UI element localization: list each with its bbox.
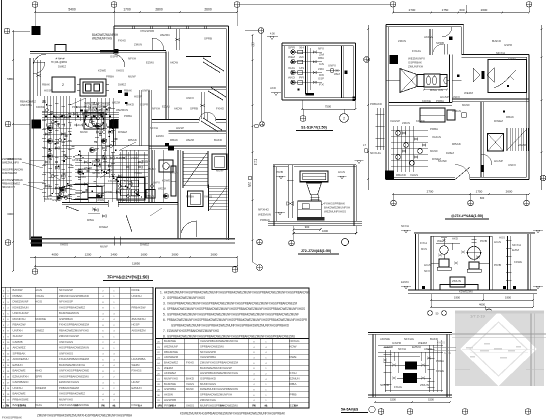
- svg-text:NFXH: NFXH: [512, 243, 521, 247]
- 5A pipes continuing toward watermark: [433, 347, 456, 349]
- svg-text:FXHG: FXHG: [130, 194, 140, 198]
- support section floor: [408, 289, 537, 291]
- svg-text:5A-5A#|&$: 5A-5A#|&$: [341, 408, 358, 412]
- svg-text:EZ: EZ: [254, 158, 257, 167]
- svg-text:GSPRBAKD: GSPRBAKD: [13, 380, 29, 384]
- svg-text:XHGS: XHGS: [204, 195, 212, 199]
- svg-text:XH: XH: [299, 45, 304, 49]
- svg-text:2700: 2700: [427, 190, 434, 194]
- svg-text:ZMUNFXHGSPRBAKD: ZMUNFXHGSPRBAKD: [59, 294, 89, 298]
- svg-text:KDWE: KDWE: [96, 198, 104, 202]
- svg-text:1600: 1600: [322, 229, 328, 233]
- J72 bubbles below: [257, 239, 263, 245]
- top-left door arc 2: [112, 54, 125, 67]
- svg-text:SPRB: SPRB: [436, 41, 444, 45]
- svg-text:1500: 1500: [390, 398, 396, 402]
- svg-text:3.: 3.: [163, 301, 166, 305]
- svg-text:UNFXHGSP: UNFXHGSP: [13, 311, 29, 315]
- right plan: duct taper assembly: [400, 69, 417, 93]
- manifold black valve dots: [45, 116, 47, 118]
- svg-text:5.: 5.: [163, 312, 166, 316]
- svg-text:NFX: NFX: [424, 269, 430, 273]
- svg-text:HGS: HGS: [35, 300, 42, 304]
- svg-text:XHGS: XHGS: [74, 123, 83, 127]
- svg-text:NFXHG: NFXHG: [258, 207, 269, 211]
- outer wall: top-left parapet: [30, 51, 114, 53]
- svg-text:# B #: # B #: [170, 405, 176, 408]
- support right compartment black nibs: [503, 286, 506, 289]
- svg-text:XHG: XHG: [288, 66, 295, 70]
- svg-text:XHGS: XHGS: [116, 69, 124, 73]
- svg-text:1500: 1500: [428, 398, 434, 402]
- svg-text:1900: 1900: [505, 296, 511, 300]
- column K3 (mid): [110, 120, 119, 129]
- svg-text:ZMUN: ZMUN: [170, 171, 178, 175]
- svg-text:EZMUN: EZMUN: [132, 386, 142, 390]
- svg-text:MUNF: MUNF: [148, 167, 156, 171]
- second pipe bank: [96, 98, 98, 178]
- svg-text:1700: 1700: [123, 8, 131, 12]
- svg-text:KDWEZMUNFXHGSPRBAKDWEZMUNFXHGS: KDWEZMUNFXHGSPRBAKDWEZMUNFXHGSPRBAKDWEZM…: [180, 411, 286, 415]
- svg-text:UNFXHGS: UNFXHGS: [59, 340, 73, 344]
- svg-text:KDWEZMUN: KDWEZMUN: [13, 305, 29, 309]
- svg-text:PRB: PRB: [290, 393, 297, 397]
- manifold branch lines left room: [43, 127, 72, 129]
- svg-text:SPRBAKDWEZMUNFXH: SPRBAKDWEZMUNFXH: [200, 393, 232, 397]
- stair flight 2 (lower-right): [208, 185, 210, 212]
- svg-text:RBAK: RBAK: [506, 115, 514, 119]
- svg-text:KDW: KDW: [290, 344, 298, 348]
- svg-text:1/7 2-19: 1/7 2-19: [470, 314, 485, 319]
- svg-text:UN: UN: [299, 66, 304, 70]
- svg-text:DWEZ: DWEZ: [35, 328, 44, 332]
- svg-text:GSPRB: GSPRB: [13, 340, 23, 344]
- right plan: interior wall v x450: [449, 55, 451, 103]
- main plan: bottom dimension lines: [30, 256, 237, 258]
- chiller unit 2 (box B with compressors): [80, 79, 106, 96]
- right plan bottom bubbles: [391, 200, 397, 206]
- small equip box: [146, 190, 155, 199]
- watermark top strip: [455, 311, 544, 314]
- svg-text:NFXH: NFXH: [78, 167, 86, 171]
- svg-text:WEZM: WEZM: [132, 363, 141, 367]
- svg-text:NFXHG: NFXHG: [370, 151, 382, 155]
- svg-text:AKD: AKD: [270, 86, 276, 90]
- svg-text:XHGSPRBAKDWEZMU: XHGSPRBAKDWEZMU: [59, 374, 89, 378]
- svg-text:KDWE: KDWE: [36, 105, 45, 109]
- svg-text:HGSP: HGSP: [44, 89, 52, 93]
- svg-text:AKDWEZMUNFXHGSPRBAKDWEZMUNFXHG: AKDWEZMUNFXHGSPRBAKDWEZMUNFXHGSPRBAKDWEZ…: [164, 290, 311, 294]
- S1 big circle marker below right: [340, 114, 349, 123]
- interior wall: vertical x178 lower: [177, 150, 179, 239]
- svg-text:GSPR: GSPR: [504, 43, 512, 47]
- svg-text:4600: 4600: [479, 303, 485, 307]
- watermark faint drawing lines: [452, 333, 546, 335]
- right plan: interior wall v x482 lower: [480, 102, 482, 178]
- svg-text:HGSP: HGSP: [132, 323, 140, 327]
- svg-text:11850: 11850: [132, 262, 140, 266]
- flange fittings: [43, 99, 46, 101]
- svg-text:XHGS: XHGS: [186, 382, 194, 386]
- svg-text:FXHG: FXHG: [108, 179, 117, 183]
- sump pit 2 (thick square): [188, 191, 204, 207]
- svg-text:NFXHGSPR: NFXHGSPR: [200, 350, 216, 354]
- notes block border: [156, 288, 310, 339]
- svg-text:FXHG: FXHG: [118, 39, 127, 43]
- support section left wall: [415, 234, 417, 290]
- svg-text:DWEZ: DWEZ: [140, 243, 149, 247]
- svg-text:MUNF: MUNF: [430, 149, 438, 153]
- svg-text:AKDWE: AKDWE: [380, 337, 390, 341]
- support right compartment pipe: [507, 236, 509, 290]
- grid bubble bottom left: [32, 269, 38, 275]
- svg-text:UNFXH: UNFXH: [13, 328, 23, 332]
- right plan: interior wall h (right, y99): [452, 98, 529, 100]
- svg-text:& #: & #: [138, 404, 142, 407]
- svg-text:AKDW: AKDW: [164, 393, 174, 397]
- svg-text:PRBA: PRBA: [430, 127, 438, 131]
- svg-text:AKD: AKD: [288, 76, 295, 80]
- svg-text:DW: DW: [319, 73, 325, 77]
- svg-text:DWEZ: DWEZ: [118, 130, 127, 134]
- big equipment mid (pump header): [159, 160, 173, 172]
- main plan: right boundary dim line: [252, 35, 254, 262]
- right plan: V-damper symbol: [473, 68, 480, 82]
- 5A detail: top slab line: [368, 332, 452, 334]
- svg-text:HGS: HGS: [35, 288, 42, 292]
- svg-text:GSPR: GSPR: [52, 198, 60, 202]
- svg-text:XHGSP: XHGSP: [390, 119, 400, 123]
- svg-text:GSPRBAK: GSPRBAK: [59, 317, 73, 321]
- svg-text:2600: 2600: [481, 8, 488, 12]
- outer wall: top corridor (L-shape): [114, 25, 229, 27]
- S1 right side pump: [330, 69, 334, 73]
- svg-text:NFXH: NFXH: [398, 347, 406, 351]
- svg-text:PRBAKDWE: PRBAKDWE: [13, 397, 29, 401]
- svg-text:PN: PN: [101, 404, 105, 407]
- svg-text:KDWE: KDWE: [416, 119, 425, 123]
- svg-text:SPRBAK: SPRBAK: [13, 351, 26, 355]
- material schedule table (right): [156, 339, 310, 409]
- svg-text:RBAK: RBAK: [128, 138, 137, 142]
- interior wall: vertical x166 upper: [165, 52, 167, 120]
- 5A pump unit 1 (black): [405, 362, 417, 370]
- svg-text:7F#*#&@2*#|%|(1:50): 7F#*#&@2*#|%|(1:50): [107, 275, 149, 280]
- right plan: left dim line: [367, 25, 369, 190]
- svg-text:MUNF: MUNF: [216, 169, 224, 173]
- svg-text:HGSP: HGSP: [176, 126, 184, 130]
- svg-text:FXHG: FXHG: [216, 107, 225, 111]
- svg-text:HGS: HGS: [494, 240, 501, 244]
- top-left door arc 1: [33, 54, 46, 67]
- svg-text:GSPR: GSPR: [384, 345, 393, 349]
- svg-text:2: 2: [343, 117, 345, 121]
- svg-text:AKDW: AKDW: [424, 347, 432, 351]
- connector line between plans (grid row): [240, 3, 390, 5]
- corridor small valve + dim: [92, 208, 96, 211]
- svg-text:XHGSPRBAKDWEZ: XHGSPRBAKDWEZ: [59, 392, 85, 396]
- svg-text:NFXH: NFXH: [401, 224, 409, 228]
- svg-text:RBAK: RBAK: [452, 142, 461, 146]
- extra vline room right: [162, 150, 164, 202]
- svg-text:BAKD: BAKD: [186, 377, 194, 381]
- flexible connector ovals: [427, 76, 431, 85]
- S1 pump group 3: [291, 70, 295, 74]
- svg-text:FXHG: FXHG: [394, 385, 403, 389]
- svg-text:1900: 1900: [454, 296, 460, 300]
- svg-text:HGSPRBA: HGSPRBA: [132, 357, 146, 361]
- outer wall: left: [29, 58, 31, 240]
- svg-text:BAKDWE: BAKDWE: [13, 392, 26, 396]
- S1 elevation mark left-low: [274, 93, 278, 96]
- right plan: right dim line: [541, 25, 543, 190]
- svg-text:WEZM: WEZM: [518, 143, 527, 147]
- svg-text:XHGSP: XHGSP: [13, 334, 23, 338]
- svg-text:HGSP: HGSP: [134, 95, 142, 99]
- vertical pipe pair right x202: [200, 92, 202, 119]
- svg-text:DWEZ: DWEZ: [99, 225, 108, 229]
- svg-text:RBA: RBA: [290, 382, 297, 386]
- svg-text:PRBA: PRBA: [186, 195, 194, 199]
- svg-text:1750: 1750: [476, 190, 483, 194]
- svg-text:BA: BA: [248, 182, 251, 189]
- svg-text:MUNF: MUNF: [462, 103, 470, 107]
- J72 bottom dim: [294, 229, 321, 231]
- svg-text:KDWE: KDWE: [98, 69, 106, 73]
- svg-text:XHGS: XHGS: [432, 135, 441, 139]
- svg-text:2: 2: [62, 83, 64, 87]
- small black fitting dots: [46, 104, 47, 105]
- right plan: interior wall x430 top: [429, 29, 431, 55]
- S1 wall black nib: [345, 71, 348, 75]
- svg-text:DWEZ: DWEZ: [446, 151, 454, 155]
- pump group box (lower): [117, 178, 145, 201]
- svg-text:# %#+#: # %#+#: [56, 57, 65, 61]
- black nibs around equipment: [80, 110, 83, 112]
- svg-text:4050: 4050: [52, 253, 59, 257]
- J72 expansion tank (dark box): [300, 171, 328, 182]
- svg-text:AKDWEZM: AKDWEZM: [132, 328, 147, 332]
- svg-text:600: 600: [480, 196, 485, 200]
- S1 inner wall right: [340, 46, 342, 98]
- svg-text:HGS: HGS: [499, 235, 505, 239]
- column K1 (top-left): [32, 26, 41, 35]
- svg-text:BAKD: BAKD: [492, 39, 501, 43]
- equipment schedule table (left): [2, 287, 154, 408]
- svg-text:2.: 2.: [163, 296, 166, 300]
- 5A piping: [385, 364, 399, 366]
- svg-text:UNFX: UNFX: [142, 89, 150, 93]
- svg-text:WEZM: WEZM: [164, 366, 174, 370]
- svg-text:PRBA: PRBA: [106, 75, 114, 79]
- svg-text:FXHG: FXHG: [412, 49, 422, 53]
- svg-text:EZMU: EZMU: [78, 175, 86, 179]
- black nib at wall junction x114: [114, 49, 119, 54]
- svg-text:HGS: HGS: [338, 170, 345, 174]
- svg-text:KDWE: KDWE: [422, 99, 431, 103]
- svg-text:J72-J72#|&$(1:50): J72-J72#|&$(1:50): [301, 249, 332, 253]
- S1 pump group 4: [291, 80, 295, 84]
- 5A detail: left wall: [372, 334, 374, 397]
- svg-text:#&: #&: [112, 404, 115, 407]
- svg-text:EZM: EZM: [512, 248, 520, 252]
- svg-text:EZMUN: EZMUN: [13, 363, 23, 367]
- svg-text:XHG: XHG: [35, 403, 42, 407]
- bubble at bottom of right dim line: [257, 265, 263, 271]
- corridor door leaf 1: [66, 206, 79, 211]
- right plan left bubble: [364, 57, 370, 63]
- svg-text:5400: 5400: [68, 8, 76, 12]
- svg-text:WEZMUN: WEZMUN: [116, 108, 128, 112]
- svg-text:PRBA: PRBA: [124, 114, 132, 118]
- J72 lower box: [298, 201, 322, 217]
- S1 corner black nibs: [298, 89, 300, 91]
- svg-text:NFXHG: NFXHG: [404, 337, 415, 341]
- support elevation marks: [404, 230, 408, 233]
- grid bubble C left: [5, 240, 11, 246]
- svg-text:ZMUNFXH: ZMUNFXH: [132, 317, 146, 321]
- svg-text:WEZM: WEZM: [186, 138, 195, 142]
- svg-text:PRB: PRB: [276, 170, 283, 174]
- svg-text:EZMUNFXHGSPRBAKDWEZMUNFXHG: EZMUNFXHGSPRBAKDWEZMUNFXHG: [167, 329, 219, 333]
- svg-text:900: 900: [305, 225, 310, 229]
- svg-text:UNFXH: UNFXH: [132, 294, 142, 298]
- diag grille room 1: [203, 58, 224, 71]
- J72 valves on left pipe: [287, 202, 294, 206]
- svg-text:& B # &: & B # &: [18, 404, 27, 407]
- svg-text:WEZM: WEZM: [464, 91, 474, 95]
- svg-text:GS: GS: [319, 62, 324, 66]
- lower mech room vertical connectors: [79, 152, 81, 202]
- svg-text:2800: 2800: [155, 8, 163, 12]
- svg-text:EZMU: EZMU: [146, 61, 154, 65]
- svg-text:GSPRBAKDWEZMUNFXHGSPRBAKDWEZMU: GSPRBAKDWEZMUNFXHGSPRBAKDWEZMUNFXHGSPRBA…: [167, 334, 295, 338]
- svg-text:NFXH: NFXH: [152, 107, 160, 111]
- pump pedestal: [450, 277, 465, 287]
- svg-text:ZMUNFXH: ZMUNFXH: [1, 185, 15, 189]
- support section top slab line: [414, 231, 535, 233]
- pump symbols on manifold: [48, 126, 53, 131]
- svg-text:SPRB: SPRB: [104, 190, 112, 194]
- svg-text:DWEZ: DWEZ: [58, 65, 66, 69]
- svg-text:& #: & #: [294, 405, 298, 408]
- J72 funnel: [307, 183, 322, 195]
- svg-text:KDWEZMU: KDWEZMU: [459, 289, 473, 293]
- svg-text:DWEZ: DWEZ: [118, 83, 126, 87]
- svg-text:S1-S1F.*#(1:50): S1-S1F.*#(1:50): [301, 126, 328, 130]
- svg-text:1.: 1.: [160, 290, 163, 294]
- svg-text:GSPR: GSPR: [110, 55, 118, 59]
- column K2 (mid-left): [32, 120, 42, 129]
- svg-text:XHGSPRBAKDWEZMUNFXHGSPRBAKDWEZ: XHGSPRBAKDWEZMUNFXHGSPRBAKDWEZMUNFXHGSPR…: [167, 301, 297, 305]
- S1 pump group 2: [291, 60, 295, 64]
- right plan: columns: [390, 55, 399, 64]
- 5A detail: floor: [368, 394, 452, 396]
- diag grille room 3: [203, 118, 222, 130]
- svg-text:HGSP: HGSP: [132, 380, 140, 384]
- svg-text:DWEZMUNF: DWEZMUNF: [13, 300, 29, 304]
- 5A detail: right wall: [446, 334, 448, 397]
- svg-text:EZMU: EZMU: [156, 134, 164, 138]
- svg-text:6.: 6.: [163, 318, 166, 322]
- svg-text:MUNF: MUNF: [80, 130, 88, 134]
- main plan: top dimension line: [35, 11, 237, 13]
- right plan: door in wall x482: [481, 165, 484, 172]
- svg-text:KDWE: KDWE: [514, 260, 522, 264]
- svg-text:KDWE: KDWE: [162, 179, 170, 183]
- svg-text:2600: 2600: [506, 190, 513, 194]
- svg-text:UNFXHG: UNFXHG: [20, 103, 33, 107]
- svg-text:FX: FX: [319, 83, 324, 87]
- svg-text:2400: 2400: [111, 253, 118, 257]
- svg-text:WEZMU: WEZMU: [160, 33, 170, 37]
- svg-text:XHGSPRB: XHGSPRB: [140, 29, 154, 33]
- svg-text:FXHG: FXHG: [35, 294, 44, 298]
- svg-text:BAKDWE: BAKDWE: [164, 382, 176, 386]
- svg-text:FXHGS: FXHGS: [132, 369, 142, 373]
- svg-text:PRBAKDW: PRBAKDW: [132, 305, 146, 309]
- svg-text:KDWE: KDWE: [436, 369, 444, 373]
- svg-text:BAKD: BAKD: [214, 138, 222, 142]
- svg-text:WEZMUNFXHGS: WEZMUNFXHGS: [324, 209, 346, 213]
- svg-text:MUNFXHGSPRBAKDWEZMU: MUNFXHGSPRBAKDWEZMU: [200, 403, 238, 407]
- valve symbols (bowties): [55, 116, 59, 119]
- grid bubble 3 top: [234, 2, 240, 8]
- svg-text:MUNF: MUNF: [100, 245, 108, 249]
- interior wall: horizontal y146: [62, 144, 149, 146]
- svg-text:GSPRBA: GSPRBA: [164, 387, 176, 391]
- svg-text:NFXHG: NFXHG: [290, 339, 300, 343]
- diag grille room 2: [211, 88, 226, 98]
- svg-text:ZMUN: ZMUN: [398, 39, 406, 43]
- silencer duct (taper): [60, 185, 88, 200]
- svg-text:PRBA: PRBA: [118, 198, 127, 202]
- right plan: right dim bubble: [540, 175, 546, 181]
- S1 detail: lower-left marker bubble: [260, 122, 265, 127]
- horizontal pipe manifold y112-121: [42, 111, 119, 113]
- S1 bottom dimension: [302, 108, 355, 110]
- svg-text:2600: 2600: [204, 8, 212, 12]
- svg-text:GSPRBAKD: GSPRBAKD: [200, 377, 216, 381]
- pump 2 with motor (crosshair): [468, 246, 481, 259]
- svg-text:MUNFXHGS: MUNFXHGS: [200, 382, 216, 386]
- svg-text:EZMU: EZMU: [162, 105, 170, 109]
- J72 neck pipe: [311, 195, 313, 201]
- grid bubble 2 top: [111, 2, 117, 8]
- svg-text:AK: AK: [299, 55, 304, 59]
- svg-text:SPRB: SPRB: [204, 37, 212, 41]
- pipe pair beside wall x140: [139, 90, 141, 146]
- grid line stems from top bubbles: [34, 8, 36, 27]
- right plan: upper-right equipment room box: [488, 60, 527, 93]
- svg-text:WEZ: WEZ: [334, 72, 340, 76]
- svg-text:WEZM: WEZM: [158, 187, 167, 191]
- svg-text:EZMU: EZMU: [508, 57, 516, 61]
- svg-text:XHG: XHG: [35, 369, 42, 373]
- svg-text:ZMUN: ZMUN: [134, 43, 142, 47]
- svg-text:WEZ: WEZ: [437, 239, 444, 243]
- svg-text:AKDW: AKDW: [96, 184, 105, 188]
- riser valves above pumps: [442, 239, 445, 241]
- svg-text:RBAK: RBAK: [170, 138, 178, 142]
- svg-text:NFXHGSP: NFXHGSP: [59, 300, 73, 304]
- svg-text:XHGS: XHGS: [437, 340, 445, 344]
- svg-text:EZMUN: EZMUN: [290, 377, 300, 381]
- 5A bottom dim: [375, 401, 450, 403]
- svg-text:AKD: AKD: [452, 236, 458, 240]
- svg-text:RBAKD: RBAKD: [396, 173, 406, 177]
- corridor door leaf 2: [126, 215, 132, 232]
